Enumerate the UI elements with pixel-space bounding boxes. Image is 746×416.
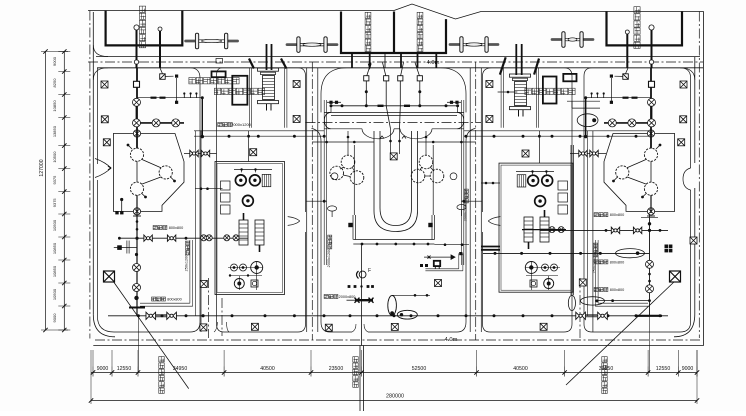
grounding line exit bbox=[359, 346, 361, 412]
rail clamp squares bbox=[348, 223, 352, 227]
dimension line total 280000 bbox=[91, 400, 697, 402]
svg-text:2000x800: 2000x800 bbox=[339, 295, 356, 299]
label trench right c bbox=[594, 260, 608, 264]
entrance arch east bbox=[400, 129, 432, 139]
svg-text:127000: 127000 bbox=[39, 159, 45, 176]
block5 chain dots bbox=[648, 273, 651, 276]
vertical wire to dimension bbox=[137, 316, 139, 373]
reactor trio right bbox=[419, 155, 433, 169]
building valve hall pole2 high-end bbox=[607, 11, 683, 45]
svg-text:10500: 10500 bbox=[52, 219, 57, 231]
trench loop block1 bbox=[140, 302, 190, 304]
mid connect wire right bbox=[418, 141, 477, 143]
entrance arch west bbox=[362, 129, 394, 139]
block2 south driveway bbox=[221, 298, 223, 336]
svg-text:13850: 13850 bbox=[52, 125, 57, 137]
svg-text:280000: 280000 bbox=[386, 394, 404, 400]
pump header wire bbox=[234, 169, 272, 171]
pump P3 bbox=[243, 195, 254, 206]
trench circle right bbox=[450, 173, 457, 180]
svg-text:800x800: 800x800 bbox=[167, 298, 182, 302]
accident oil pool left bbox=[232, 76, 247, 105]
transformer bay walls right bbox=[500, 68, 502, 128]
pump P2 bbox=[250, 175, 261, 186]
label trench 2000x800 mid bbox=[324, 295, 338, 299]
block2 equipment enclosure bbox=[215, 162, 285, 295]
filter string node top bbox=[133, 130, 140, 137]
right tank oval horizontal bbox=[581, 297, 605, 305]
svg-text:9375: 9375 bbox=[52, 175, 57, 185]
right road centerline bbox=[698, 12, 700, 339]
label hall pole2 low bbox=[417, 12, 423, 51]
arrester branch wire bbox=[424, 256, 451, 258]
label trench road B vertical bbox=[328, 235, 332, 249]
marker xbox block2 bbox=[250, 149, 257, 156]
label grounding outgoing bbox=[353, 357, 358, 388]
road C crossing wire bbox=[461, 200, 482, 202]
site boundary top line with roof profile bbox=[88, 4, 704, 19]
label converter transformer valve area bbox=[189, 78, 239, 84]
svg-text:800x800: 800x800 bbox=[169, 226, 184, 230]
wall bushing pole2 hv B bbox=[651, 30, 653, 68]
svg-text:4.0m: 4.0m bbox=[445, 337, 458, 343]
svg-text:12550: 12550 bbox=[117, 366, 132, 372]
label hall pole2 high bbox=[634, 7, 640, 49]
svg-text:2000x1200: 2000x1200 bbox=[231, 122, 252, 127]
phase slash right b bbox=[500, 57, 506, 74]
disconnector drop wires bbox=[365, 81, 367, 106]
small label box bbox=[216, 59, 223, 64]
string row wire bbox=[137, 122, 185, 124]
svg-text:39850: 39850 bbox=[599, 366, 614, 372]
label trench right b bbox=[594, 288, 608, 292]
reactor trio left bbox=[341, 155, 355, 169]
hv drop wires left bbox=[266, 44, 268, 70]
block4 feeder from road C bbox=[481, 182, 500, 184]
wire under U east bbox=[434, 244, 469, 246]
road B centerline bbox=[311, 62, 313, 340]
dc yard wire row bbox=[331, 105, 458, 107]
svg-text:800x800: 800x800 bbox=[610, 260, 625, 264]
arrester cluster left bbox=[117, 245, 122, 250]
ac filter enclosure polygon bbox=[113, 134, 184, 212]
crossing bus right side a bbox=[483, 252, 650, 254]
road A trench bbox=[194, 131, 196, 316]
smoothing reactor U outer bbox=[374, 131, 418, 232]
bottom bus valves block1 bbox=[146, 312, 156, 319]
svg-text:2000x1200: 2000x1200 bbox=[327, 249, 331, 268]
svg-text:10850: 10850 bbox=[52, 242, 57, 254]
building valve hall pole1 high-end bbox=[106, 11, 183, 46]
marker xbox right road bbox=[690, 237, 697, 244]
svg-text:8250: 8250 bbox=[52, 78, 57, 88]
svg-text:40500: 40500 bbox=[260, 366, 275, 372]
block5 main chain wire bbox=[649, 214, 651, 316]
svg-text:4.0m: 4.0m bbox=[427, 60, 440, 66]
chain bold tick bbox=[129, 307, 145, 309]
left dimension line bbox=[63, 52, 65, 331]
block2 lower devices bbox=[231, 264, 238, 271]
building valve hall pole1 low-end bbox=[341, 12, 446, 54]
trio feeder right bbox=[425, 131, 427, 155]
tank wires bbox=[392, 294, 430, 296]
pump feeder 2 bbox=[195, 188, 223, 190]
disconnector squares row bbox=[364, 76, 369, 81]
string bold segment bbox=[136, 106, 138, 123]
neutral bold assembly bbox=[355, 299, 373, 301]
wall bushing pole1 hv B bbox=[159, 31, 161, 68]
lane arrow marks bbox=[380, 136, 384, 139]
filter interconnect wires bbox=[142, 159, 162, 168]
label accident oil pool right bbox=[525, 88, 575, 94]
surge arrester box bbox=[134, 81, 140, 87]
svg-text:9000: 9000 bbox=[52, 313, 57, 323]
bay block 3 outline bbox=[321, 68, 466, 332]
block5 bold cross at bus bbox=[637, 315, 662, 317]
filter string wire bbox=[136, 68, 138, 148]
row device xcircle d bbox=[172, 119, 180, 127]
disconnector slant feeders bbox=[367, 63, 371, 76]
disconnector slash-square top bbox=[160, 74, 166, 80]
phase slash left a bbox=[249, 59, 254, 69]
capacitor bank C3 bbox=[130, 182, 143, 195]
middle road lower edge segments bbox=[324, 128, 362, 130]
trench loop block5 bbox=[598, 302, 648, 304]
crossing bus block1-2 bbox=[119, 237, 248, 239]
block3 road fillets bbox=[312, 128, 322, 141]
mid connect wire left bbox=[312, 141, 374, 143]
block5 chain xcircle b bbox=[646, 285, 654, 293]
block3 bottom gap curves bbox=[352, 324, 368, 332]
block4 equipment cluster bbox=[499, 131, 573, 292]
dc exit gantry big xbox pole1 bbox=[104, 271, 115, 282]
dimension line row1 bbox=[91, 372, 697, 374]
road B crossing wire bbox=[306, 200, 327, 202]
cable trench along road C bbox=[460, 100, 462, 265]
trench L corner bbox=[425, 268, 458, 270]
label trench right a bbox=[594, 213, 608, 217]
block1 entrance notch bbox=[95, 159, 111, 178]
dc line pole2 exit bbox=[566, 281, 675, 385]
dc line pole1 exit bbox=[113, 281, 189, 389]
radiator bank T2 bbox=[255, 220, 264, 245]
road D centerline bbox=[579, 278, 581, 338]
road node circle bbox=[134, 60, 138, 64]
svg-text:800x800: 800x800 bbox=[610, 213, 625, 217]
block2 wall cells bbox=[221, 181, 231, 190]
low-end hall bushings bbox=[351, 53, 353, 68]
marker xbox road A bbox=[200, 280, 207, 287]
chain ticks bbox=[133, 215, 141, 217]
bay block 4 outline bbox=[483, 68, 573, 332]
bottom road lower edge bbox=[93, 345, 703, 347]
marker xbox column right bbox=[680, 81, 687, 88]
branch wire y97.7 bbox=[137, 97, 203, 99]
top road right corner curve bbox=[680, 68, 695, 80]
arrester junction marks bbox=[420, 264, 423, 267]
label trench road D vertical bbox=[594, 243, 598, 257]
bay wire right bbox=[498, 91, 518, 93]
marker xbox block3 bbox=[390, 153, 397, 160]
road D trench bbox=[586, 131, 588, 316]
svg-text:F: F bbox=[368, 268, 371, 274]
bushing arrow bbox=[368, 64, 371, 69]
svg-text:10850: 10850 bbox=[52, 265, 57, 277]
right bottom valves bbox=[576, 312, 586, 319]
left road centerline bbox=[89, 11, 91, 339]
marker xbox bottom row bbox=[251, 323, 258, 330]
top road centerline bbox=[88, 61, 703, 63]
U loop rails right bbox=[431, 215, 433, 240]
svg-text:9000: 9000 bbox=[52, 56, 57, 66]
valve row crossing road A bbox=[184, 153, 217, 155]
firewall bold rect left bbox=[212, 71, 226, 77]
converter transformer T-left bbox=[258, 68, 279, 71]
transformer bay walls left bbox=[249, 68, 251, 128]
bottom left corner curve bbox=[93, 315, 115, 337]
pool tail wires right bbox=[567, 100, 600, 102]
svg-text:10500: 10500 bbox=[52, 288, 57, 300]
main cable trench bus west bbox=[194, 130, 324, 132]
block4 entrance curves bbox=[488, 217, 500, 226]
block2 feeder wire bbox=[248, 131, 250, 162]
row device xcircle 0 bbox=[133, 119, 141, 127]
trench oval left bbox=[328, 206, 337, 211]
label dc outgoing pole1 bbox=[159, 357, 164, 394]
bus sausage tank bbox=[616, 249, 645, 258]
cable trench along road B bbox=[323, 100, 325, 265]
svg-text:40500: 40500 bbox=[513, 366, 528, 372]
bus through block2 bbox=[201, 235, 207, 241]
converter transformer T-right bbox=[510, 74, 531, 77]
middle road upper edges bbox=[324, 111, 463, 113]
wall bushing pole1 hv A bbox=[136, 30, 138, 68]
U loop bottom bus bbox=[353, 239, 434, 241]
valve row crossing road D bbox=[570, 153, 606, 155]
middle road end caps bbox=[324, 112, 331, 128]
gantry busbar 1 bbox=[186, 33, 238, 49]
row device xcircle c bbox=[152, 119, 160, 127]
trench head squares right bbox=[447, 101, 461, 103]
svg-text:9000: 9000 bbox=[97, 366, 109, 372]
neutral branch wire bbox=[361, 244, 363, 346]
left road inner edge bbox=[92, 12, 94, 315]
svg-text:10850: 10850 bbox=[52, 100, 57, 112]
firewall bold rect right bbox=[563, 74, 576, 81]
right bus valve b bbox=[633, 227, 641, 233]
capacitor bank C1 bbox=[130, 148, 143, 161]
bottom service bus bbox=[108, 315, 668, 317]
svg-text:9000: 9000 bbox=[682, 366, 694, 372]
label trench 800 block1 b bbox=[152, 297, 166, 301]
neutral device F bbox=[359, 271, 366, 278]
right bus dots bbox=[605, 229, 608, 232]
road B edges bbox=[306, 68, 308, 332]
label accident oil pool left bbox=[214, 88, 264, 94]
junction square lower bbox=[175, 101, 178, 104]
svg-text:52500: 52500 bbox=[412, 366, 427, 372]
road C edges bbox=[469, 68, 471, 332]
phase slash left b bbox=[281, 59, 286, 69]
trench head squares left bbox=[327, 101, 341, 103]
road A centerline bbox=[208, 278, 210, 338]
chain devices lower bbox=[133, 264, 141, 272]
gantry busbar 3 bbox=[450, 37, 498, 53]
label trench road C vertical bbox=[464, 189, 468, 203]
svg-text:12550: 12550 bbox=[656, 366, 671, 372]
right bus valve a bbox=[611, 227, 619, 233]
bottom road centerline bbox=[95, 339, 700, 341]
neutral marks row bbox=[348, 285, 351, 288]
hv drop wires right bbox=[515, 44, 517, 75]
marker xbox block4 side bbox=[486, 81, 493, 88]
accident oil pool right bbox=[543, 77, 557, 104]
gantry busbar 2 bbox=[287, 37, 337, 53]
U loop rails left bbox=[352, 215, 354, 240]
tank oval vertical bbox=[388, 296, 397, 316]
right crossing bus bbox=[540, 229, 668, 231]
marker xbox block2-road bbox=[293, 81, 300, 88]
dimension extension lines bbox=[92, 350, 94, 367]
block2 entrance curves bbox=[288, 217, 300, 226]
block5 ac filter cluster bbox=[584, 60, 675, 373]
junction drop wire bbox=[176, 78, 178, 101]
label hall pole1 high bbox=[139, 6, 145, 48]
block5 entrance curves bbox=[683, 168, 691, 190]
road D edges bbox=[570, 145, 572, 295]
phase slash right a bbox=[534, 59, 539, 75]
center cable duct bbox=[390, 129, 392, 154]
bottom right corner curve bbox=[674, 314, 695, 337]
right tank oval vertical bbox=[568, 295, 575, 310]
bottom bus dots bbox=[137, 314, 140, 317]
trench oval right bbox=[457, 205, 466, 210]
tank oval horizontal bbox=[397, 310, 417, 319]
bay block 1 outline bbox=[97, 68, 200, 332]
marker xbox column left bbox=[101, 81, 108, 88]
main cable trench bus east bbox=[464, 130, 653, 132]
svg-text:250x1200: 250x1200 bbox=[185, 255, 189, 272]
gantry busbar 4 bbox=[552, 32, 593, 48]
svg-text:9375: 9375 bbox=[52, 198, 57, 208]
svg-text:2000x1200: 2000x1200 bbox=[463, 203, 467, 222]
right road inner edge bbox=[694, 57, 696, 163]
radiator bank T1 bbox=[239, 220, 248, 245]
svg-text:10500: 10500 bbox=[52, 151, 57, 163]
junction square upper bbox=[175, 75, 178, 78]
junction marks left bbox=[120, 198, 123, 201]
string device xcircle a bbox=[133, 98, 141, 106]
svg-text:800x800: 800x800 bbox=[610, 288, 625, 292]
capacitor bank C2 bbox=[159, 166, 172, 179]
svg-text:250x1200: 250x1200 bbox=[593, 257, 597, 274]
bold clamp cluster bbox=[665, 245, 669, 249]
dc exit gantry big xbox pole2 bbox=[670, 271, 681, 282]
left total dimension 127000 bbox=[45, 52, 47, 331]
bus dots bbox=[228, 135, 231, 138]
pump P1 bbox=[235, 175, 246, 186]
block5 chain xcircle a bbox=[646, 260, 654, 268]
top road lower edge bbox=[97, 67, 703, 69]
label cable trench row bbox=[218, 122, 232, 126]
arrester block bbox=[434, 261, 440, 266]
site boundary right edge bbox=[703, 12, 705, 346]
smoothing reactor U inner bbox=[380, 131, 412, 226]
label trench 800 block1 a bbox=[153, 226, 167, 230]
bold duct right bbox=[481, 246, 500, 248]
wall bushing pole2 hv A bbox=[626, 34, 628, 68]
filter string node bottom bbox=[133, 208, 140, 215]
wall between low-end halls bbox=[393, 12, 395, 54]
svg-text:23500: 23500 bbox=[329, 366, 344, 372]
bay block 2 outline bbox=[217, 68, 306, 332]
label hall pole1 low bbox=[365, 12, 371, 51]
label dc outgoing pole2 bbox=[602, 357, 607, 394]
block5 wire y300 bbox=[596, 300, 650, 302]
label trench road A vertical bbox=[186, 241, 190, 255]
top road upper edge bbox=[96, 56, 700, 58]
bus valves block1 bbox=[144, 235, 152, 241]
wire to trench bold bbox=[201, 98, 203, 137]
marker xbox block4 bbox=[522, 150, 529, 157]
top road left corner curves bbox=[93, 45, 108, 57]
road C centerline bbox=[475, 62, 477, 340]
road D sausage tank bbox=[577, 114, 598, 127]
bay block 5 outline bbox=[584, 68, 691, 332]
trio feeder left bbox=[347, 131, 349, 155]
cooler fin bank top bbox=[262, 174, 271, 186]
block2 lower wires bbox=[228, 267, 263, 269]
block5 chain tick bbox=[641, 217, 658, 219]
middle road centerline bbox=[306, 122, 482, 124]
trench circle left bbox=[331, 173, 338, 180]
